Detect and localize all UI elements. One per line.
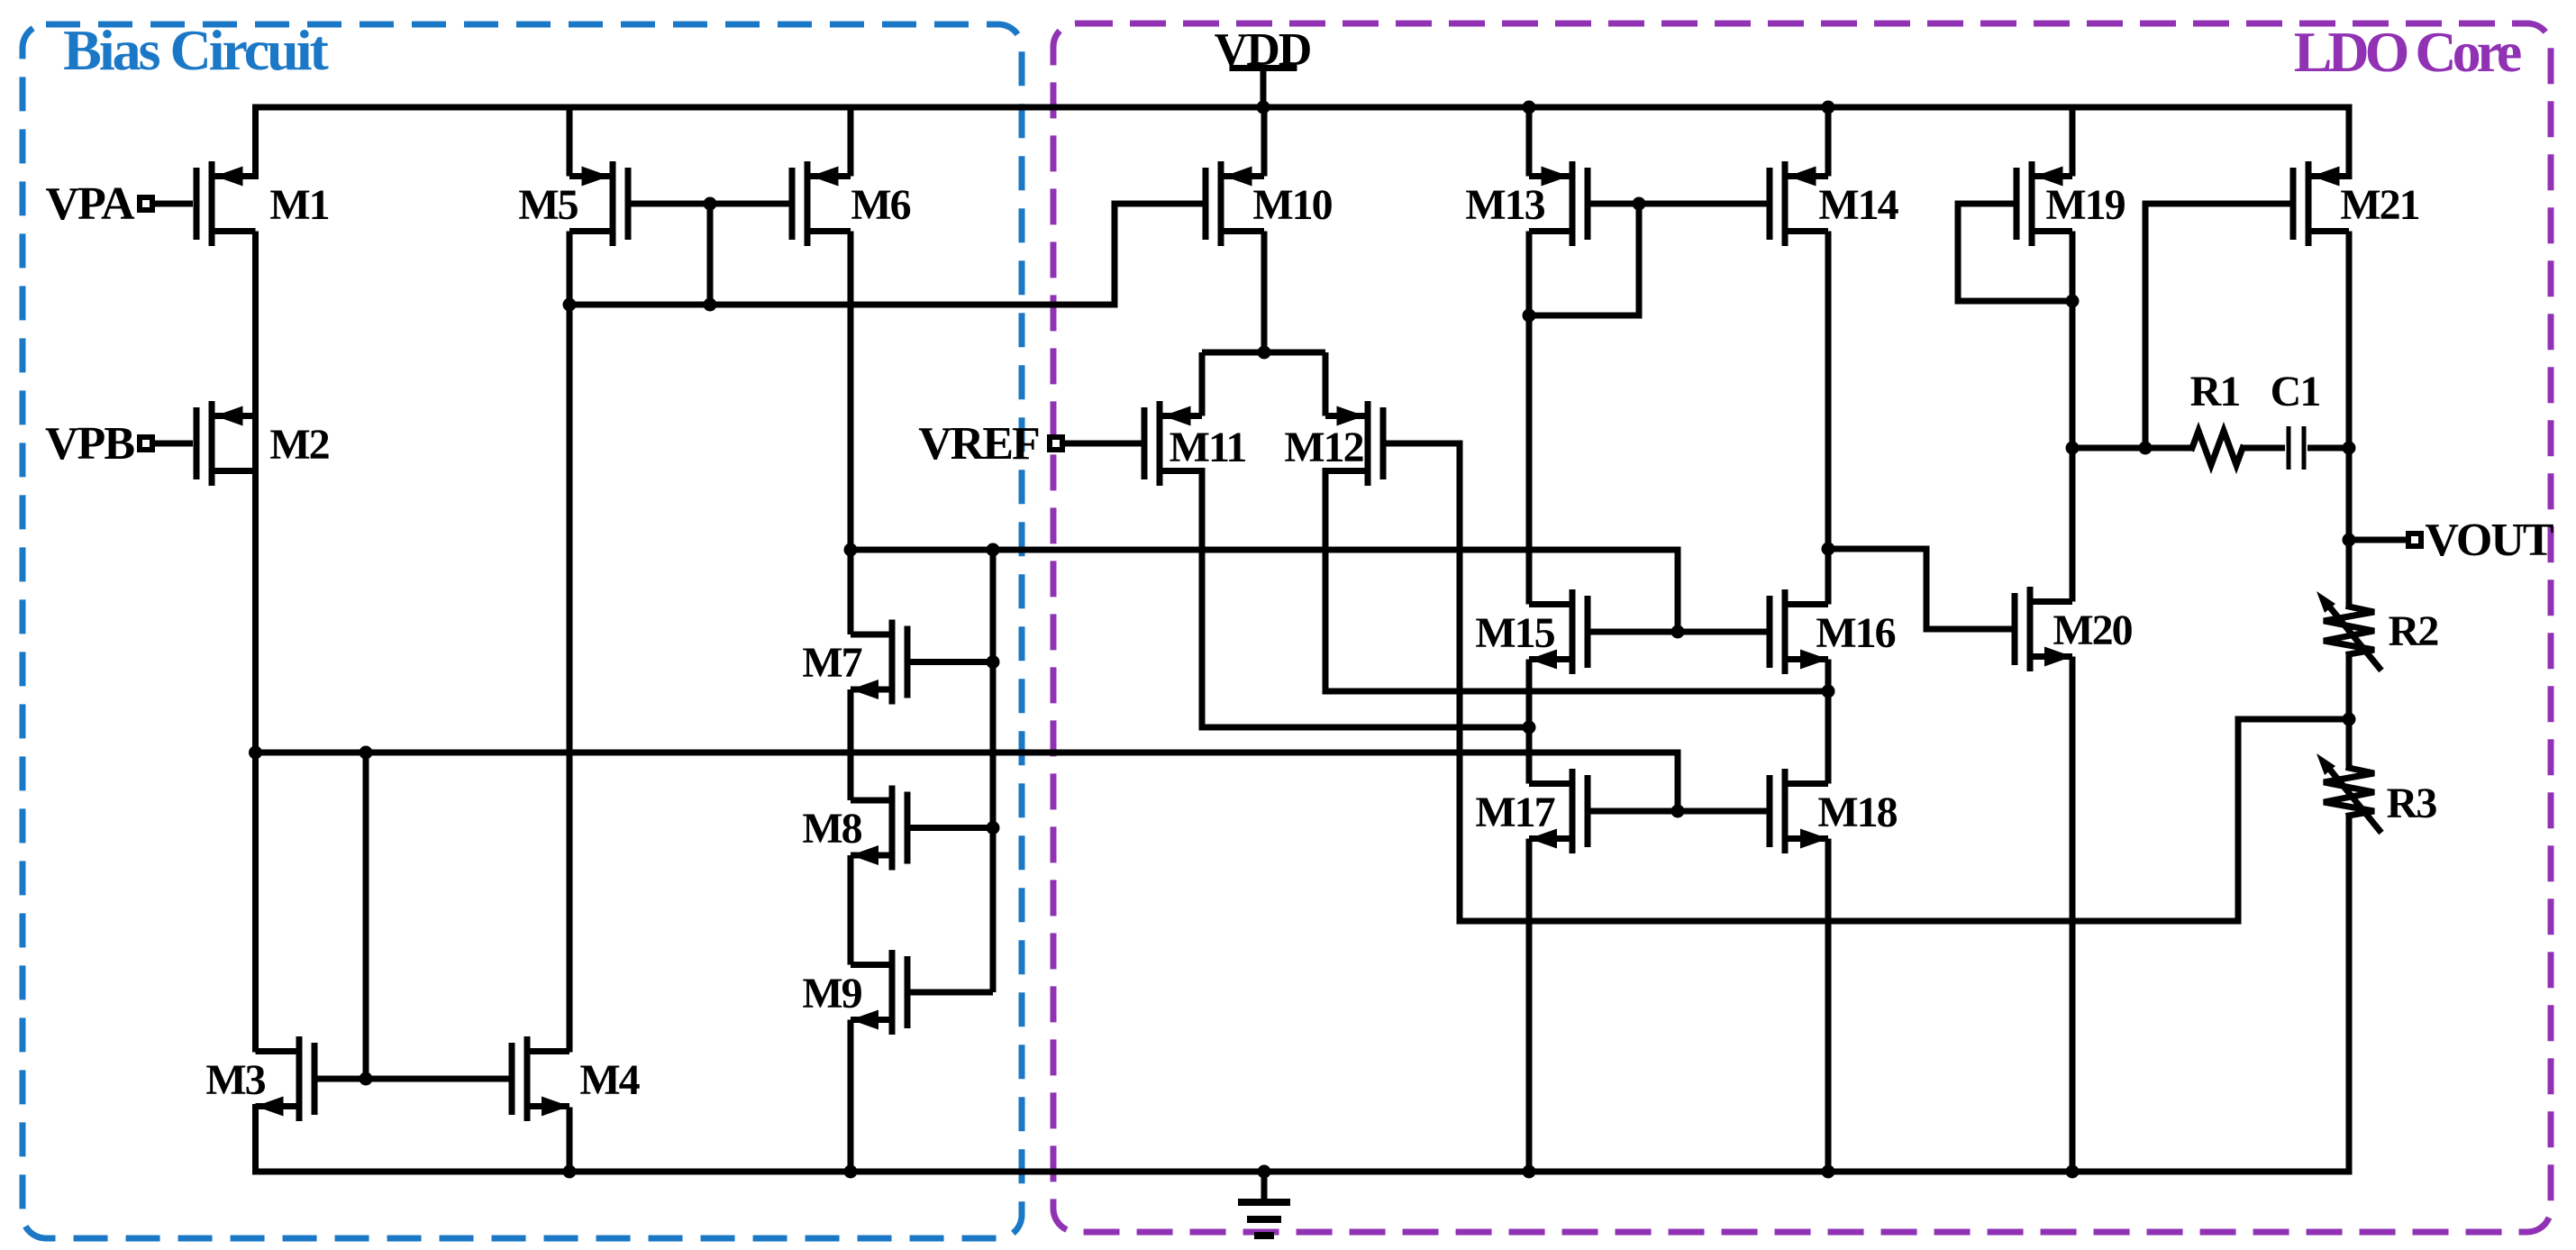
svg-text:M11: M11 <box>1170 424 1246 471</box>
svg-text:M16: M16 <box>1816 609 1895 657</box>
wire M4 source to rail <box>567 1108 573 1172</box>
ground <box>1261 1172 1268 1202</box>
junction dot gate riser / bias wire <box>360 746 373 760</box>
transistor M18 (NMOS) <box>1767 775 1773 847</box>
wire M14 source to VDD rail <box>1825 107 1832 177</box>
port pad VPB <box>140 437 152 450</box>
junction dot VOUT node <box>2343 534 2356 547</box>
junction dot M19 drain / R1 branch <box>2066 442 2080 455</box>
junction dot M11 drain / M15 source <box>1523 721 1536 734</box>
svg-text:Bias Circuit: Bias Circuit <box>63 18 329 82</box>
svg-text:VPA: VPA <box>45 178 134 230</box>
wire cascode bus to M15/M16 gates <box>851 550 1678 632</box>
svg-text:M19: M19 <box>2045 181 2125 229</box>
wire bottom ground rail <box>256 1108 2350 1172</box>
wire M18 source to rail <box>1825 839 1832 1172</box>
wire M12 gate to feedback tap <box>1386 443 2349 921</box>
svg-text:M10: M10 <box>1252 181 1332 229</box>
junction dot M19 diode <box>2066 295 2080 308</box>
wire VPA lead to M1 gate <box>152 201 193 207</box>
wire M13/M14 gate bus <box>1588 201 1770 207</box>
transistor M6 (PMOS) <box>789 168 796 240</box>
svg-text:R1: R1 <box>2190 368 2240 415</box>
wire M12 source riser <box>1323 352 1329 416</box>
junction dot M5/M6 gate node <box>704 197 717 211</box>
junction dot M14 source-rail <box>1822 101 1835 114</box>
wire M2-drain bias line to M17/M18 gates <box>256 753 1679 811</box>
svg-text:R2: R2 <box>2389 607 2438 655</box>
transistor M16 (NMOS) <box>1767 596 1773 668</box>
wire M20 source to rail <box>2070 657 2076 1172</box>
wire M4 drain to M5 drain column <box>567 232 573 1053</box>
junction dot M9 source-rail <box>844 1165 858 1179</box>
wire M15/M16 gate bus <box>1588 629 1770 635</box>
junction dot VDD-rail <box>1257 101 1270 114</box>
wire M7-M9 gate bus (vertical) <box>990 550 997 992</box>
node VDD tap bar <box>1233 65 1294 71</box>
wire M19 drain to M20 drain <box>2070 232 2076 602</box>
junction dot M13 gate node <box>1633 197 1646 211</box>
svg-text:C1: C1 <box>2271 368 2320 415</box>
wire M5/M6 gate bus <box>628 201 792 207</box>
wire C1 to M21 drain <box>2307 445 2349 452</box>
wire M10 drain to diff-pair common source <box>1261 232 1268 353</box>
svg-text:M17: M17 <box>1475 789 1554 836</box>
junction dot M13 source-rail <box>1523 101 1536 114</box>
wire R1 left lead <box>2072 445 2192 452</box>
transistor M7 (NMOS) <box>905 626 911 698</box>
svg-text:M7: M7 <box>802 639 861 687</box>
wire VOUT lead <box>2349 537 2406 543</box>
junction dot M12 drain / M16 source <box>1822 685 1835 698</box>
wire M9 source to rail <box>848 1020 854 1172</box>
junction dot M18 source-rail <box>1822 1165 1835 1179</box>
wire M6 source to VDD rail <box>848 107 854 177</box>
junction dot compensation node <box>2139 442 2153 455</box>
svg-text:VREF: VREF <box>918 418 1039 470</box>
wire M13 source to VDD rail <box>1526 107 1533 177</box>
wire VDD stem <box>1261 68 1267 108</box>
port pad VREF <box>1050 437 1062 450</box>
region box: Bias Circuit (blue dashed) <box>23 24 1022 1238</box>
svg-text:M9: M9 <box>802 970 861 1017</box>
wire M13 drain to M15 drain <box>1526 232 1533 605</box>
transistor M8 (NMOS) <box>905 792 911 864</box>
junction dot M15/M16 gate node <box>1671 625 1685 639</box>
transistor M12 (PMOS) <box>1380 407 1387 479</box>
svg-text:M6: M6 <box>851 181 910 229</box>
wire M9 gate lead <box>910 990 993 996</box>
capacitor C1 <box>2287 426 2291 470</box>
junction dot M17/M18 gate node <box>1671 805 1685 818</box>
wire R2 to R3 <box>2346 653 2353 770</box>
junction dot cascode bus / M7-M9 gate bus <box>987 543 1000 557</box>
wire M5 source to VDD rail <box>567 107 573 177</box>
port pad VOUT <box>2408 534 2421 546</box>
wire M11 drain to M15 source node <box>1202 471 1529 728</box>
wire M1 drain to M2 source / M3 drain column <box>252 232 259 1053</box>
wire M19 source to VDD rail <box>2070 107 2076 177</box>
svg-text:M5: M5 <box>518 181 578 229</box>
junction dot C1 / VOUT column <box>2343 442 2356 455</box>
wire M11 source riser <box>1199 352 1206 416</box>
wire M15 source to M17 drain <box>1526 660 1533 784</box>
junction dot common source <box>1258 346 1271 360</box>
port pad VPA <box>140 197 152 210</box>
svg-text:M4: M4 <box>579 1056 640 1104</box>
svg-text:M15: M15 <box>1475 609 1554 657</box>
junction dot M7 gate node <box>987 655 1000 669</box>
wire gate-bus drop to bias link <box>707 204 714 305</box>
transistor M3 (NMOS) <box>312 1043 318 1115</box>
transistor M20 (NMOS) <box>2012 593 2018 665</box>
transistor M21 (PMOS) <box>2290 168 2297 240</box>
wire M8 source to M9 drain <box>848 855 854 965</box>
wire M13 diode connection <box>1529 204 1639 315</box>
wire M7 gate lead <box>910 659 993 665</box>
transistor M10 (PMOS) <box>1203 168 1209 240</box>
svg-text:R3: R3 <box>2387 780 2437 827</box>
svg-text:M3: M3 <box>205 1056 265 1104</box>
svg-text:M21: M21 <box>2340 181 2418 229</box>
region box: LDO Core (purple dashed) <box>1053 23 2551 1232</box>
junction dot M4 source-rail <box>563 1165 577 1179</box>
svg-text:LDO Core: LDO Core <box>2294 20 2521 84</box>
junction dot M17 source-rail <box>1523 1165 1536 1179</box>
svg-text:M20: M20 <box>2053 607 2132 654</box>
junction dot feedback tap <box>2343 713 2356 726</box>
transistor M4 (NMOS) <box>509 1043 515 1115</box>
wire M16 source to M18 drain <box>1825 660 1832 784</box>
wire M7 source to M8 drain <box>848 689 854 800</box>
junction dot bias link mid <box>704 298 717 312</box>
transistor M1 (PMOS) <box>194 168 200 240</box>
wire M19 diode connection <box>1958 204 2072 301</box>
wire M3/M4 gate riser <box>363 753 369 1079</box>
wire M3/M4 gate bus <box>314 1076 512 1082</box>
transistor M17 (NMOS) <box>1585 775 1591 847</box>
wire M8 gate lead <box>910 825 993 831</box>
svg-text:M2: M2 <box>269 421 328 469</box>
transistor M11 (PMOS) <box>1142 407 1148 479</box>
wire R1 to C1 <box>2243 445 2285 452</box>
svg-text:M13: M13 <box>1465 181 1544 229</box>
junction dot M14 drain / bus to M20 gate <box>1822 543 1835 556</box>
junction dot M20 source-rail <box>2066 1165 2080 1179</box>
svg-text:M12: M12 <box>1284 424 1362 471</box>
transistor M19 (PMOS) <box>2014 168 2020 240</box>
wire bus to M20 gate <box>1828 549 2010 629</box>
junction dot M3/M4 gate node <box>360 1072 373 1086</box>
svg-text:M1: M1 <box>269 181 328 229</box>
svg-text:VOUT: VOUT <box>2425 515 2553 566</box>
junction dot M8 gate node <box>987 821 1000 835</box>
wire VDD rail <box>256 107 2350 177</box>
transistor M2 (PMOS) <box>194 407 200 479</box>
transistor M15 (NMOS) <box>1585 596 1591 668</box>
wire VPB lead to M2 gate <box>152 441 193 447</box>
wire M10 source to VDD rail <box>1261 107 1268 177</box>
wire M14 drain to M16 drain <box>1825 232 1832 605</box>
junction dot bias link left <box>563 298 577 312</box>
wire M17 source to rail <box>1526 839 1533 1172</box>
wire M6 drain to M7 drain column <box>848 232 854 635</box>
junction dot M2-drain / bias wire <box>249 746 262 760</box>
junction dot ground-rail <box>1258 1165 1271 1179</box>
junction dot M13 drain diode <box>1523 309 1536 323</box>
node diff-pair common source bar <box>1202 350 1325 356</box>
svg-text:VDD: VDD <box>1215 24 1311 76</box>
transistor M14 (PMOS) <box>1767 168 1773 240</box>
wire R3 to rail <box>2346 816 2353 1172</box>
svg-text:M14: M14 <box>1818 181 1898 229</box>
wire M21 gate to compensation node <box>2145 204 2293 448</box>
junction dot M6 drain / cascode bus <box>844 543 858 557</box>
svg-text:M8: M8 <box>802 805 861 853</box>
wire bias link to M10 gate <box>569 204 1203 305</box>
transistor M13 (PMOS) <box>1585 168 1591 240</box>
wire M12 drain to M16 source node <box>1325 471 1828 692</box>
svg-text:VPB: VPB <box>45 418 134 470</box>
wire M21 drain to R2 <box>2346 232 2353 608</box>
resistor R2 (variable) <box>2324 607 2374 654</box>
transistor M5 (PMOS) <box>625 168 632 240</box>
resistor R3 (variable) <box>2324 768 2374 816</box>
resistor R1 <box>2192 431 2243 465</box>
svg-text:M18: M18 <box>1817 789 1897 836</box>
transistor M9 (NMOS) <box>905 956 911 1028</box>
wire M17/M18 gate bus <box>1588 808 1770 815</box>
wire VREF lead to M11 gate <box>1062 441 1142 447</box>
